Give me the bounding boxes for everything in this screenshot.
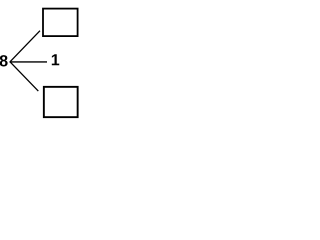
label 8 (whole) [0,55,8,66]
wire: lower diagonal line to bottom box [10,62,38,91]
top answer box [43,9,78,36]
label 1 (part) [52,54,59,65]
bottom answer box [44,87,78,117]
wire: upper diagonal line to top box [10,31,40,62]
wire: horizontal line toward label 1 [10,61,48,63]
number bond diagram: 8 = 1 + ? [0,0,82,122]
background [0,0,82,122]
